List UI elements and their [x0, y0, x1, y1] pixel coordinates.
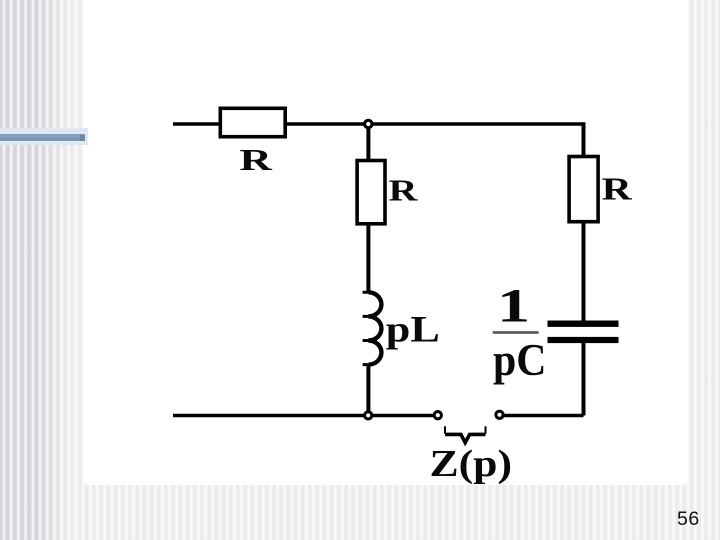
svg-text:Z(p): Z(p) — [430, 443, 513, 485]
svg-text:pL: pL — [386, 309, 440, 350]
svg-text:1: 1 — [497, 280, 530, 332]
svg-text:R: R — [389, 173, 419, 208]
svg-text:pC: pC — [493, 336, 546, 386]
svg-text:R: R — [602, 172, 633, 207]
svg-text:R: R — [239, 144, 273, 178]
